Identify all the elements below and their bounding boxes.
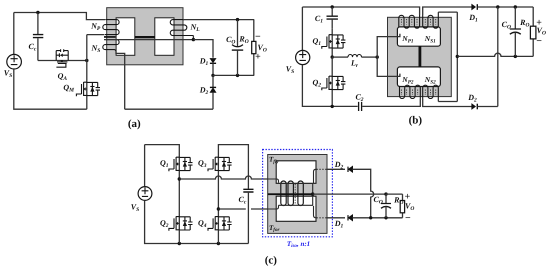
capacitor Co [237, 20, 239, 47]
wire: output bottom rail [352, 217, 402, 219]
transistor Q2 [169, 216, 193, 230]
svg-text:Tiso, n:1: Tiso, n:1 [287, 240, 310, 249]
inductor Lr [348, 54, 362, 57]
svg-text:(b): (b) [409, 115, 423, 127]
wire: QA branch wire [38, 60, 87, 62]
primary winding loops through both cores [281, 181, 304, 206]
node: Q2 source on rail [178, 242, 181, 245]
wire: top rail [14, 13, 105, 20]
wire: mid to D2 [212, 75, 214, 87]
wire: NS1 end to center tap [438, 11, 457, 13]
wire: D1 to mid rail [212, 63, 214, 75]
diode D1 (pointing down) [210, 59, 216, 63]
node: Q2 source / bottom rail [331, 105, 334, 108]
diode D1 [472, 4, 476, 9]
core gap bar (left leg) [104, 36, 116, 38]
wire: tap to NP1 [377, 34, 400, 57]
wire: Np bottom wire [87, 34, 105, 36]
core gap bar (center pillar) [135, 36, 155, 38]
winding NS2 turns (bottom edge right group) [423, 85, 439, 101]
svg-text:(c): (c) [265, 255, 278, 267]
wire: left leg vertical [178, 157, 180, 230]
diode D2 (pointing left) [348, 167, 352, 172]
node: center tap [456, 55, 459, 58]
wire: Ns top cross rail [104, 39, 193, 41]
node: middle output [311, 192, 314, 195]
node: Co top [514, 5, 517, 8]
node: Cc tap [36, 11, 39, 14]
node: half-bridge midpoint [331, 55, 334, 58]
winding pass dashes [294, 184, 296, 205]
wire: center tap vertical [456, 12, 458, 101]
node: rectifier common [496, 5, 499, 8]
node: Co top [384, 192, 387, 195]
winding NP1 turns (top edge left group) [399, 15, 420, 28]
node: NL/rail junction [192, 38, 195, 41]
wire: D1 to output top rail [477, 6, 533, 8]
wire: primary threading and exit to middle node [279, 184, 313, 206]
Tfly window [276, 161, 316, 184]
node: primary tap [376, 55, 379, 58]
wire: top rail right segment [218, 145, 248, 176]
svg-text:(a): (a) [128, 118, 141, 130]
voltage source Vs [7, 54, 22, 69]
wire: Vs bottom lead + bottom rail [145, 200, 249, 243]
transistor Q2 [322, 76, 346, 90]
winding block NP2/NS2 (bottom box) [397, 67, 440, 87]
wire: Lr to primary tap [362, 56, 378, 58]
wire: Q1 main vertical [331, 28, 333, 57]
wire: D2 to common vertical with hop [352, 169, 373, 218]
diode D2 [472, 104, 476, 109]
transformer core (gray) [388, 17, 452, 96]
wire: bottom rail to D2 [423, 99, 472, 107]
voltage source Vs [138, 187, 152, 201]
node: QA-QM junction [85, 59, 88, 62]
winding behind-core dashes [401, 19, 435, 95]
winding Ns [103, 40, 119, 52]
resistor Ro [532, 7, 534, 56]
node: Q4 source on rail [217, 242, 220, 245]
wire: middle output rail [313, 193, 386, 195]
winding NS1 turns (top edge right group) [423, 12, 439, 28]
transformer T core (gray) [107, 8, 183, 65]
node: D2/D1 common [369, 216, 372, 219]
capacitor Co [385, 194, 387, 203]
capacitor Cc [247, 176, 249, 189]
wire: Q2 main vertical [331, 57, 333, 106]
capacitor Cc [37, 13, 39, 35]
node: C1 top [331, 5, 334, 8]
wire: top rail left segment [145, 145, 180, 158]
wire: midpoint to Lr [332, 56, 348, 58]
node: Co bottom [236, 74, 239, 77]
core middle bar (shared wire) [268, 193, 313, 195]
winding block NP1/NS1 (top box) [397, 27, 440, 46]
node: left leg midpoint [178, 177, 181, 180]
diode D1 (pointing left) [348, 215, 352, 220]
wire: Tfor secondary to D1 (dotted through core) [314, 206, 317, 218]
wire: Vs top lead [301, 7, 303, 50]
wire: output return with hop [457, 53, 533, 56]
svg-text:+: + [405, 191, 411, 202]
wire: upper bridge output with two hops [179, 176, 267, 179]
winding NL [170, 20, 193, 36]
wire: D2 to bottom rail [212, 92, 214, 109]
winding Np [103, 20, 119, 35]
diode D2 (pointing up) [210, 86, 216, 88]
wire: lower bridge output with break at Cc [218, 208, 267, 210]
voltage source Vs [296, 50, 310, 64]
transformer right window [155, 18, 174, 56]
wire: tap to NP2 [377, 57, 400, 76]
wire: D1 top lead from NS1 [423, 7, 472, 15]
wire: primary entry upper (into loops) [268, 179, 279, 183]
svg-text:−: − [405, 213, 411, 224]
resistor Ro [402, 194, 404, 218]
transistor QA (horizontal MOSFET with body diode + cap) [56, 49, 68, 67]
capacitor C2 [359, 102, 362, 111]
svg-text:+: + [255, 52, 261, 63]
wire: right leg vertical [217, 157, 219, 230]
transformer left window [116, 18, 135, 56]
wire: Vs top lead [13, 13, 15, 55]
node: right leg midpoint [217, 207, 220, 210]
wire: NL end drop [192, 36, 194, 40]
capacitor C1 [331, 7, 333, 16]
capacitor Co [514, 7, 516, 29]
wire: Vs bottom lead + primary bottom rail [14, 69, 87, 109]
wire: secondary bottom rail [125, 108, 213, 110]
wire: Vs bottom lead + bottom rail [302, 65, 357, 107]
core center post bar [419, 46, 422, 67]
wire: D2 to rectifier common [477, 106, 498, 108]
wire: rail to D1 [193, 40, 213, 58]
svg-text:−: − [536, 36, 542, 47]
transistor Q3 [208, 157, 232, 171]
wire: mid rail [213, 74, 254, 76]
node: Co bottom [384, 216, 387, 219]
transistor Q1 [322, 35, 346, 49]
wire: center vertical (Np bottom to QM to rail) [86, 35, 88, 110]
transistor QM [76, 82, 100, 96]
transistor Q4 [208, 216, 232, 230]
core Tfly+Tfor (gray block) [268, 155, 327, 234]
wire: Tfly secondary to D2 (dotted through core) [314, 169, 317, 183]
blue dashed boundary Tiso [263, 150, 333, 237]
node: Co bottom [514, 55, 517, 58]
Tfor window [276, 196, 316, 221]
wire: top rail [302, 7, 419, 15]
wire: Vs top lead [144, 145, 146, 187]
svg-text:−: − [255, 31, 261, 42]
wire: Ns end through window down [116, 52, 125, 109]
wire: rectifier common vertical [497, 7, 499, 106]
resistor Ro [253, 20, 255, 76]
winding NP2 turns (bottom edge left group) [400, 85, 421, 99]
wire: NS2 end to center tap [438, 101, 457, 103]
node: D1-D2 mid [211, 74, 214, 77]
node: Co top [236, 18, 239, 21]
wire: primary entry lower (into loops) [268, 205, 279, 209]
transistor Q1 [169, 157, 193, 171]
wire: top output rail [183, 19, 254, 21]
